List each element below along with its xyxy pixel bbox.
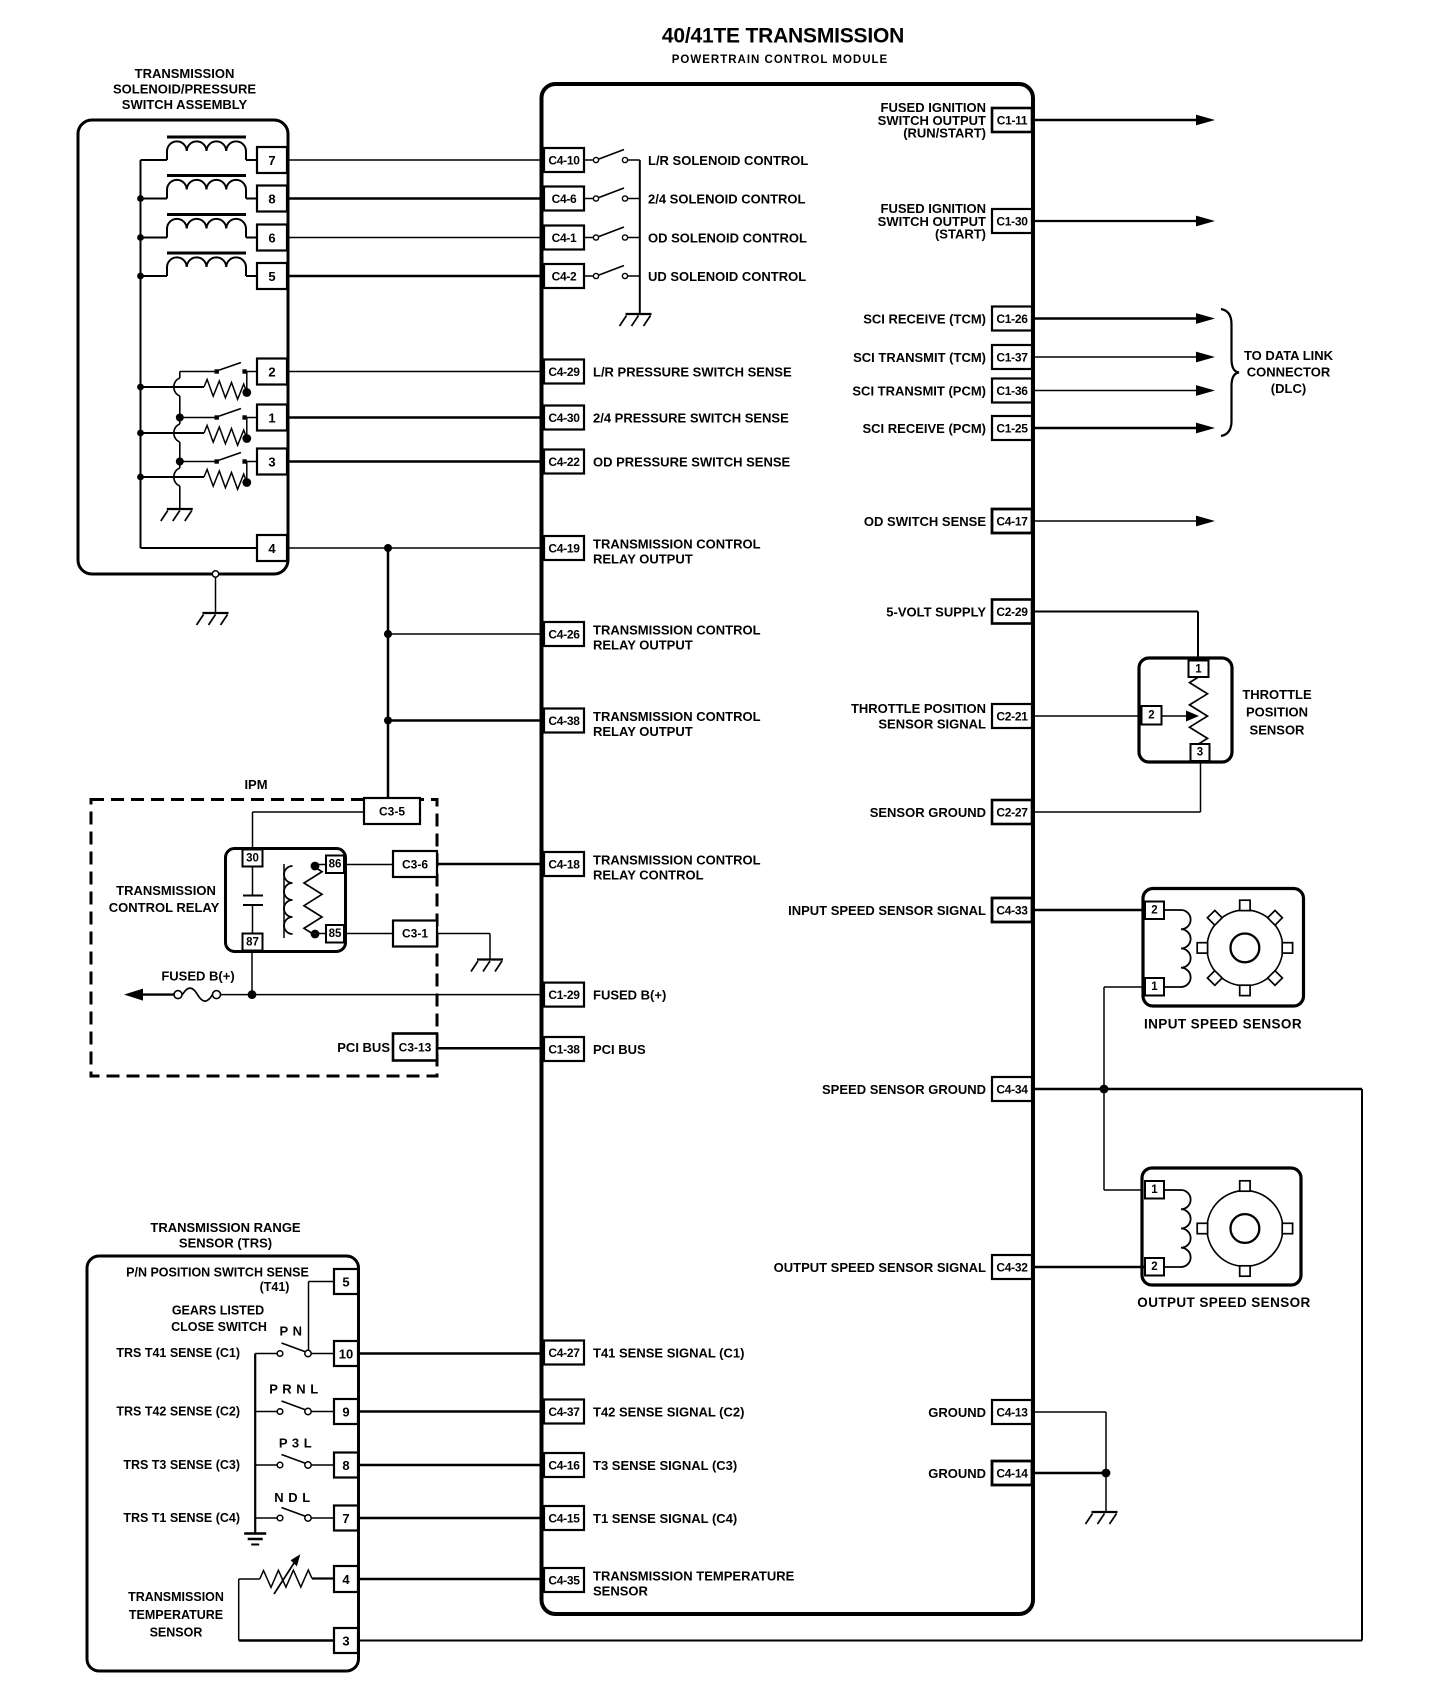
svg-text:SOLENOID/PRESSURE: SOLENOID/PRESSURE — [113, 82, 256, 97]
svg-text:INPUT SPEED SENSOR: INPUT SPEED SENSOR — [1144, 1017, 1302, 1032]
svg-text:TRANSMISSION CONTROL: TRANSMISSION CONTROL — [593, 709, 761, 724]
svg-text:TRANSMISSION CONTROL: TRANSMISSION CONTROL — [593, 622, 761, 637]
svg-text:P R N L: P R N L — [269, 1382, 319, 1397]
svg-text:SENSOR SIGNAL: SENSOR SIGNAL — [878, 717, 986, 732]
svg-text:9: 9 — [342, 1405, 349, 1420]
svg-text:T42 SENSE SIGNAL (C2): T42 SENSE SIGNAL (C2) — [593, 1405, 744, 1420]
svg-text:C4-38: C4-38 — [548, 714, 580, 728]
svg-text:C1-37: C1-37 — [996, 351, 1028, 365]
svg-text:P/N POSITION SWITCH SENSE: P/N POSITION SWITCH SENSE — [126, 1266, 309, 1280]
svg-text:CONTROL RELAY: CONTROL RELAY — [109, 900, 220, 915]
svg-text:C4-33: C4-33 — [996, 904, 1028, 918]
svg-text:C1-25: C1-25 — [996, 422, 1028, 436]
svg-text:5: 5 — [268, 269, 275, 284]
svg-text:L/R SOLENOID CONTROL: L/R SOLENOID CONTROL — [648, 153, 808, 168]
svg-text:87: 87 — [246, 937, 259, 949]
svg-text:3: 3 — [342, 1634, 349, 1649]
svg-text:SCI TRANSMIT (TCM): SCI TRANSMIT (TCM) — [853, 350, 986, 365]
svg-text:TRANSMISSION CONTROL: TRANSMISSION CONTROL — [593, 536, 761, 551]
svg-text:GROUND: GROUND — [928, 1466, 986, 1481]
svg-text:SCI TRANSMIT (PCM): SCI TRANSMIT (PCM) — [852, 384, 986, 399]
svg-text:C4-29: C4-29 — [548, 365, 580, 379]
svg-text:2: 2 — [1151, 905, 1157, 917]
svg-text:1: 1 — [1151, 1184, 1158, 1196]
svg-text:IPM: IPM — [244, 777, 267, 792]
svg-text:P N: P N — [280, 1324, 303, 1339]
svg-text:C4-18: C4-18 — [548, 858, 580, 872]
svg-text:SCI RECEIVE (PCM): SCI RECEIVE (PCM) — [862, 421, 986, 436]
svg-text:TRANSMISSION: TRANSMISSION — [128, 1590, 224, 1604]
svg-text:GEARS LISTED: GEARS LISTED — [172, 1304, 264, 1318]
svg-text:SPEED SENSOR GROUND: SPEED SENSOR GROUND — [822, 1082, 986, 1097]
svg-text:5: 5 — [342, 1275, 349, 1290]
svg-text:C4-13: C4-13 — [996, 1406, 1028, 1420]
svg-text:PCI BUS: PCI BUS — [593, 1042, 646, 1057]
svg-text:OD SOLENOID CONTROL: OD SOLENOID CONTROL — [648, 231, 807, 246]
svg-text:3: 3 — [1197, 747, 1203, 759]
svg-text:SENSOR: SENSOR — [1250, 723, 1306, 738]
svg-text:C3-1: C3-1 — [402, 927, 428, 941]
svg-text:L/R PRESSURE SWITCH SENSE: L/R PRESSURE SWITCH SENSE — [593, 365, 792, 380]
svg-text:THROTTLE POSITION: THROTTLE POSITION — [851, 701, 986, 716]
svg-text:1: 1 — [1151, 981, 1158, 993]
svg-text:(START): (START) — [935, 227, 986, 242]
svg-text:1: 1 — [1195, 664, 1202, 676]
svg-text:TRANSMISSION CONTROL: TRANSMISSION CONTROL — [593, 852, 761, 867]
svg-text:RELAY CONTROL: RELAY CONTROL — [593, 867, 704, 882]
svg-text:GROUND: GROUND — [928, 1405, 986, 1420]
svg-text:SENSOR: SENSOR — [593, 1583, 649, 1598]
svg-text:3: 3 — [268, 455, 275, 470]
svg-text:4: 4 — [268, 541, 276, 556]
svg-text:C3-13: C3-13 — [399, 1041, 432, 1055]
svg-text:C4-1: C4-1 — [552, 231, 577, 245]
svg-text:C4-14: C4-14 — [996, 1467, 1028, 1481]
svg-text:C4-26: C4-26 — [548, 628, 580, 642]
svg-text:2: 2 — [1148, 710, 1154, 722]
svg-text:85: 85 — [329, 928, 342, 940]
svg-text:C4-10: C4-10 — [548, 154, 580, 168]
svg-text:40/41TE TRANSMISSION: 40/41TE TRANSMISSION — [662, 25, 904, 48]
svg-text:N D L: N D L — [274, 1490, 310, 1505]
svg-text:(DLC): (DLC) — [1271, 381, 1306, 396]
svg-text:RELAY OUTPUT: RELAY OUTPUT — [593, 551, 693, 566]
svg-text:C4-34: C4-34 — [996, 1083, 1028, 1097]
svg-text:PCI BUS: PCI BUS — [337, 1040, 390, 1055]
svg-text:86: 86 — [329, 859, 342, 871]
svg-text:T1 SENSE SIGNAL (C4): T1 SENSE SIGNAL (C4) — [593, 1511, 737, 1526]
svg-text:C4-30: C4-30 — [548, 411, 580, 425]
svg-text:2: 2 — [1151, 1261, 1157, 1273]
svg-text:FUSED B(+): FUSED B(+) — [161, 969, 234, 984]
svg-text:6: 6 — [268, 231, 275, 246]
svg-text:OD SWITCH SENSE: OD SWITCH SENSE — [864, 514, 986, 529]
svg-text:1: 1 — [268, 411, 275, 426]
svg-text:SWITCH ASSEMBLY: SWITCH ASSEMBLY — [122, 97, 248, 112]
svg-text:TRANSMISSION TEMPERATURE: TRANSMISSION TEMPERATURE — [593, 1568, 795, 1583]
svg-text:FUSED B(+): FUSED B(+) — [593, 988, 666, 1003]
svg-text:SENSOR: SENSOR — [150, 1626, 203, 1640]
svg-text:C4-35: C4-35 — [548, 1574, 580, 1588]
svg-text:C1-26: C1-26 — [996, 312, 1028, 326]
svg-text:SENSOR (TRS): SENSOR (TRS) — [179, 1236, 272, 1251]
svg-text:CONNECTOR: CONNECTOR — [1247, 365, 1331, 380]
svg-text:TRS T3 SENSE (C3): TRS T3 SENSE (C3) — [123, 1458, 240, 1472]
svg-text:C4-16: C4-16 — [548, 1459, 580, 1473]
svg-text:OD PRESSURE SWITCH SENSE: OD PRESSURE SWITCH SENSE — [593, 455, 791, 470]
svg-text:2: 2 — [268, 365, 275, 380]
svg-text:TRS T41 SENSE (C1): TRS T41 SENSE (C1) — [116, 1346, 240, 1360]
svg-text:TRANSMISSION: TRANSMISSION — [116, 883, 216, 898]
svg-text:C3-6: C3-6 — [402, 858, 428, 872]
svg-text:SCI RECEIVE (TCM): SCI RECEIVE (TCM) — [863, 312, 986, 327]
svg-text:C4-6: C4-6 — [552, 192, 577, 206]
svg-text:10: 10 — [339, 1347, 353, 1362]
svg-text:C1-11: C1-11 — [997, 114, 1028, 128]
svg-text:C1-38: C1-38 — [548, 1043, 580, 1057]
svg-text:POWERTRAIN CONTROL MODULE: POWERTRAIN CONTROL MODULE — [672, 54, 888, 66]
svg-text:C2-21: C2-21 — [996, 710, 1028, 724]
svg-text:C4-15: C4-15 — [548, 1512, 580, 1526]
svg-text:C3-5: C3-5 — [379, 805, 405, 819]
svg-text:CLOSE SWITCH: CLOSE SWITCH — [171, 1320, 267, 1334]
svg-text:C2-29: C2-29 — [996, 605, 1028, 619]
svg-text:C4-37: C4-37 — [548, 1405, 580, 1419]
svg-text:TRANSMISSION RANGE: TRANSMISSION RANGE — [150, 1220, 301, 1235]
svg-text:P 3 L: P 3 L — [279, 1436, 312, 1451]
svg-text:7: 7 — [268, 153, 275, 168]
svg-text:T3 SENSE SIGNAL (C3): T3 SENSE SIGNAL (C3) — [593, 1458, 737, 1473]
svg-text:C4-19: C4-19 — [548, 542, 580, 556]
svg-text:TRS T1 SENSE (C4): TRS T1 SENSE (C4) — [123, 1511, 240, 1525]
svg-text:2/4 PRESSURE SWITCH SENSE: 2/4 PRESSURE SWITCH SENSE — [593, 411, 789, 426]
svg-text:C2-27: C2-27 — [996, 806, 1028, 820]
svg-text:RELAY OUTPUT: RELAY OUTPUT — [593, 637, 693, 652]
svg-text:C4-17: C4-17 — [996, 515, 1028, 529]
svg-text:OUTPUT SPEED SENSOR SIGNAL: OUTPUT SPEED SENSOR SIGNAL — [774, 1260, 986, 1275]
svg-text:4: 4 — [342, 1572, 350, 1587]
svg-text:C4-22: C4-22 — [548, 455, 580, 469]
svg-text:C1-29: C1-29 — [548, 988, 580, 1002]
svg-text:(T41): (T41) — [260, 1280, 290, 1294]
svg-text:(RUN/START): (RUN/START) — [903, 126, 986, 141]
svg-text:TO DATA LINK: TO DATA LINK — [1244, 348, 1334, 363]
svg-text:7: 7 — [342, 1511, 349, 1526]
svg-text:POSITION: POSITION — [1246, 705, 1308, 720]
svg-text:5-VOLT SUPPLY: 5-VOLT SUPPLY — [886, 605, 986, 620]
svg-text:T41 SENSE SIGNAL (C1): T41 SENSE SIGNAL (C1) — [593, 1346, 744, 1361]
svg-text:C1-30: C1-30 — [996, 215, 1028, 229]
svg-text:THROTTLE: THROTTLE — [1242, 687, 1312, 702]
svg-text:TRS T42 SENSE (C2): TRS T42 SENSE (C2) — [116, 1405, 240, 1419]
svg-text:8: 8 — [342, 1458, 349, 1473]
svg-text:TEMPERATURE: TEMPERATURE — [129, 1608, 223, 1622]
svg-text:30: 30 — [246, 853, 259, 865]
svg-text:C4-27: C4-27 — [548, 1346, 580, 1360]
svg-text:8: 8 — [268, 192, 275, 207]
svg-text:SENSOR GROUND: SENSOR GROUND — [870, 805, 986, 820]
svg-text:2/4 SOLENOID CONTROL: 2/4 SOLENOID CONTROL — [648, 192, 806, 207]
svg-text:TRANSMISSION: TRANSMISSION — [135, 66, 235, 81]
svg-text:RELAY OUTPUT: RELAY OUTPUT — [593, 724, 693, 739]
svg-text:C4-32: C4-32 — [996, 1261, 1028, 1275]
svg-text:OUTPUT SPEED SENSOR: OUTPUT SPEED SENSOR — [1137, 1295, 1310, 1310]
svg-text:C4-2: C4-2 — [552, 270, 577, 284]
svg-text:C1-36: C1-36 — [996, 384, 1028, 398]
svg-text:UD SOLENOID CONTROL: UD SOLENOID CONTROL — [648, 269, 806, 284]
svg-text:INPUT SPEED SENSOR SIGNAL: INPUT SPEED SENSOR SIGNAL — [788, 903, 986, 918]
